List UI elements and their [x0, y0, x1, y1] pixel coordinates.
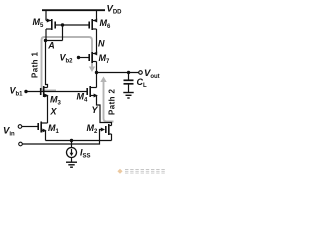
Vin terminal circle — [18, 125, 22, 129]
capacitor CL — [128, 73, 130, 80]
CL junction dot — [127, 71, 130, 74]
mirror gate wire to M6 — [63, 24, 89, 26]
path 2 (gray) — [104, 81, 114, 122]
Vb2 terminal dot — [77, 56, 80, 59]
svg-text:Path 2: Path 2 — [108, 88, 117, 115]
Vout node wire — [97, 72, 139, 74]
VDD rail — [42, 9, 105, 11]
signal path 1 (gray) — [42, 37, 93, 91]
node N wire (M6 drain to M7 source) — [96, 29, 98, 54]
wire to M2 gate — [22, 130, 101, 145]
path 2 arrowhead — [100, 77, 106, 83]
M4 drain wire up to Vout node — [96, 73, 98, 88]
Vout junction dot — [95, 71, 98, 74]
svg-text:Y: Y — [92, 105, 99, 115]
svg-text:A: A — [47, 40, 55, 50]
Vin wire to M1 gate — [22, 126, 38, 128]
tail rail wire — [46, 140, 112, 142]
node X wire (M3 source to M1 drain) — [47, 96, 49, 124]
M5 gate lead to mirror node — [56, 24, 63, 26]
Vb2 wire to M7 gate — [79, 57, 89, 59]
tail junction dot — [70, 139, 73, 142]
svg-text:Path 1: Path 1 — [31, 51, 40, 78]
ground (CL) — [123, 93, 133, 99]
node A wire — [46, 40, 63, 42]
Vout terminal circle — [139, 71, 143, 75]
transistor M2 (NMOS input, gate arrow) — [101, 128, 105, 132]
second input terminal circle — [19, 142, 23, 146]
ground (ISS) — [71, 158, 73, 162]
wire M6 source to rail — [96, 10, 98, 20]
current source ISS — [71, 141, 73, 148]
path 1 arrowhead — [89, 67, 95, 73]
transistor M5 (PMOS, diode-connected, mirrored: gate on right) — [46, 21, 51, 41]
diode connection wire down — [62, 25, 64, 41]
transistor M7 (PMOS cascode) — [93, 54, 97, 73]
transistor M6 (PMOS mirror output) — [93, 21, 97, 30]
svg-text:N: N — [98, 39, 105, 49]
wire node A down to M3 drain — [46, 41, 48, 88]
watermark — [117, 169, 164, 174]
transistor M4 (NMOS cascode) — [91, 88, 97, 96]
Vb1 wire to gates of M3 and M4 — [26, 91, 87, 93]
svg-text:X: X — [50, 107, 58, 117]
Vb1 terminal dot — [24, 90, 27, 93]
node A dot — [44, 39, 47, 42]
junction dot — [61, 23, 64, 26]
wire M5 source to rail — [45, 10, 47, 20]
transistor M1 (NMOS input) — [42, 123, 48, 141]
transistor M3 (NMOS cascode) — [45, 88, 48, 96]
node Y wire (M4 source down, jog, to M2 drain) — [97, 96, 112, 126]
